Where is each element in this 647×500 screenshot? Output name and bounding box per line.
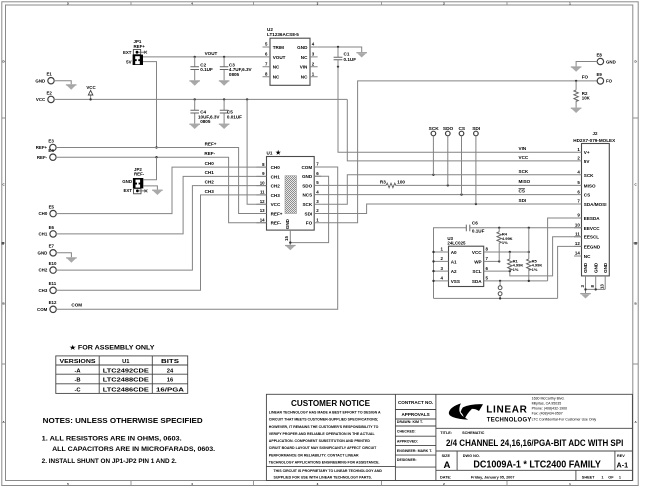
unpopulated jumper pads <box>498 281 502 299</box>
svg-text:TITLE:: TITLE: <box>440 431 452 435</box>
svg-text:E12: E12 <box>49 300 57 305</box>
ground at C2 <box>189 80 200 85</box>
svg-text:MISO: MISO <box>519 179 531 184</box>
svg-text:LTC2492CDE: LTC2492CDE <box>103 368 149 374</box>
svg-text:OF: OF <box>608 475 614 479</box>
wire J2 ground pins 3,8,13 <box>586 276 606 293</box>
svg-text:SDI: SDI <box>472 126 481 132</box>
svg-text:SCK: SCK <box>302 202 312 207</box>
svg-text:SDI: SDI <box>519 198 527 203</box>
svg-text:E9: E9 <box>597 72 603 77</box>
pad E8 GND <box>597 52 616 64</box>
svg-text:APPROVALS: APPROVALS <box>401 412 429 417</box>
ground at U1 <box>285 245 296 250</box>
capacitor C6 <box>466 221 484 234</box>
wire U1 GND pin6 route <box>290 176 328 242</box>
junction R5 bottom <box>528 280 530 282</box>
svg-text:SCHEMATIC: SCHEMATIC <box>462 431 485 435</box>
svg-text:★ FOR ASSEMBLY ONLY: ★ FOR ASSEMBLY ONLY <box>70 345 155 352</box>
junction R5/VCC <box>528 251 530 253</box>
svg-text:-C: -C <box>74 387 81 393</box>
svg-text:VSS: VSS <box>451 279 460 284</box>
svg-text:GND: GND <box>603 262 608 273</box>
svg-text:NC: NC <box>301 75 308 80</box>
svg-text:REF-: REF- <box>134 172 145 177</box>
svg-text:SIZE: SIZE <box>442 454 451 458</box>
pad E6 CH1 <box>39 225 57 237</box>
capacitor C4 <box>190 99 220 124</box>
svg-text:MISO: MISO <box>584 183 596 188</box>
svg-text:16: 16 <box>167 378 174 384</box>
svg-text:CH2: CH2 <box>205 180 215 185</box>
wire EEVCC net <box>434 228 582 299</box>
svg-text:ALL CAPACITORS ARE IN MICROFAR: ALL CAPACITORS ARE IN MICROFARADS, 0603. <box>52 446 215 453</box>
wire VCC to U1 pin 12 <box>247 99 266 204</box>
svg-text:CS: CS <box>458 126 465 132</box>
svg-text:E1: E1 <box>47 72 53 77</box>
svg-text:REF+: REF+ <box>134 44 146 49</box>
ground at C5 <box>219 124 230 129</box>
junction C2 <box>194 56 196 58</box>
svg-text:EESDA: EESDA <box>584 216 601 221</box>
pad E10 CH2 <box>39 261 57 273</box>
wire EESDA net <box>548 218 582 281</box>
wire E1 to ground <box>54 81 71 85</box>
svg-text:PERFORMANCE OR RELIABILITY. C: PERFORMANCE OR RELIABILITY. CONTACT LINE… <box>269 453 359 457</box>
svg-text:E2: E2 <box>47 90 53 95</box>
svg-text:NC: NC <box>273 75 280 80</box>
svg-text:16/PGA: 16/PGA <box>156 387 185 393</box>
testpoint SDO <box>443 126 454 186</box>
svg-text:LINEAR: LINEAR <box>486 405 528 416</box>
svg-text:C6: C6 <box>472 221 478 226</box>
svg-text:NC: NC <box>301 55 308 60</box>
svg-text:DATE:: DATE: <box>440 475 451 479</box>
svg-text:VCC: VCC <box>472 250 482 255</box>
svg-text:0.1UF: 0.1UF <box>200 67 213 72</box>
svg-text:12: 12 <box>260 199 265 204</box>
svg-text:SDO: SDO <box>302 183 312 188</box>
wire SDI net <box>321 204 574 214</box>
wire VCC to J2 pin 2 <box>347 99 574 160</box>
wire R5 column <box>528 228 530 259</box>
svg-text:REF+: REF+ <box>271 211 283 216</box>
svg-text:1: 1 <box>619 475 621 479</box>
svg-text:U1: U1 <box>122 359 130 365</box>
capacitor C5 <box>220 99 242 123</box>
svg-text:U1: U1 <box>267 150 273 155</box>
svg-text:REF+: REF+ <box>36 145 48 150</box>
wire CH3 net <box>56 195 267 290</box>
svg-text:SCL: SCL <box>472 269 481 274</box>
svg-text:GND: GND <box>35 78 45 83</box>
svg-text:VCC: VCC <box>271 202 281 207</box>
ground at JP2 <box>152 190 163 195</box>
svg-text:0.1UF: 0.1UF <box>472 229 485 234</box>
junction C4 <box>194 98 196 100</box>
ground at E7 <box>66 257 77 262</box>
wire FO net <box>321 81 597 223</box>
wire REF+ net to U1 pin 13 <box>56 148 267 214</box>
eeprom U3 24LC025 <box>434 236 489 287</box>
testpoint CS <box>458 126 465 195</box>
svg-text:CH0: CH0 <box>39 211 48 216</box>
svg-text:LT1236ACS8-5: LT1236ACS8-5 <box>267 32 299 37</box>
junction FO/R2 <box>575 80 577 82</box>
svg-text:GND: GND <box>302 174 313 179</box>
svg-text:E8: E8 <box>597 52 603 57</box>
junction jumper pads bottom <box>499 297 501 299</box>
pad E11 CH3 <box>39 281 57 293</box>
power symbol VCC <box>86 85 96 99</box>
wire VIN net: U2 VIN down and right to J2 pin 1 <box>338 67 574 152</box>
resistor R4 4.99K <box>497 228 513 262</box>
svg-text:A0: A0 <box>451 250 457 255</box>
svg-text:LINEAR TECHNOLOGY HAS MADE A B: LINEAR TECHNOLOGY HAS MADE A BEST EFFORT… <box>269 411 381 415</box>
wire SDO/MISO net with R3 <box>321 184 574 186</box>
svg-text:FO: FO <box>306 221 313 226</box>
svg-text:13: 13 <box>260 208 265 213</box>
junction R4 top <box>498 227 500 229</box>
pad E3 REF+ <box>36 138 56 150</box>
svg-text:GND: GND <box>122 179 132 184</box>
wire U3 WP pin 7 <box>484 260 500 262</box>
versions table <box>56 356 188 394</box>
svg-text:R3: R3 <box>380 179 386 184</box>
pad E12 COM <box>37 300 57 312</box>
connector J2 HD2X7-079-MOLEX <box>573 131 616 276</box>
capacitor C1 <box>334 47 357 67</box>
svg-text:GND: GND <box>285 218 290 229</box>
svg-text:TECHNOLOGY: TECHNOLOGY <box>487 418 532 424</box>
svg-text:VCC: VCC <box>36 97 46 102</box>
wire JP2 pin2 to ground <box>143 186 157 190</box>
wire E8 to ground <box>576 62 597 67</box>
approvals column <box>397 400 433 462</box>
svg-text:SDA: SDA <box>472 279 482 284</box>
svg-text:★: ★ <box>276 150 282 157</box>
svg-text:A2: A2 <box>451 269 457 274</box>
capacitor C2 <box>190 57 213 80</box>
svg-text:VERIFY PROPER AND RELIABLE OPE: VERIFY PROPER AND RELIABLE OPERATION IN … <box>269 432 376 436</box>
resistor R1 4.99K <box>508 252 524 272</box>
svg-text:1%: 1% <box>513 267 519 272</box>
svg-text:SCK: SCK <box>584 173 594 178</box>
wire ground bus under U3 <box>434 297 558 299</box>
svg-text:24: 24 <box>167 368 174 374</box>
jumper JP2 REF- <box>122 167 147 194</box>
junction C1 bottom / VIN <box>337 66 339 68</box>
svg-text:CH1: CH1 <box>39 232 48 237</box>
junction jumper pads top <box>499 280 501 282</box>
junction REF+ <box>155 146 157 148</box>
title row <box>440 431 623 449</box>
svg-text:APPROVED:: APPROVED: <box>397 439 418 443</box>
svg-text:VOUT: VOUT <box>205 51 218 56</box>
wire VOUT net: JP1 to U2 pin 6 <box>143 56 263 58</box>
svg-text:GND: GND <box>583 262 588 273</box>
svg-text:APPLICATION. COMPONENT SUBSTI: APPLICATION. COMPONENT SUBSTITUTION AND … <box>269 439 371 443</box>
svg-text:5V: 5V <box>126 59 131 64</box>
svg-text:NC: NC <box>273 65 280 70</box>
pad E2 VCC <box>36 90 54 102</box>
svg-text:12: 12 <box>575 241 580 246</box>
svg-text:DC1009A-1 * LTC2400 FAMILY: DC1009A-1 * LTC2400 FAMILY <box>473 460 601 471</box>
svg-text:0805: 0805 <box>229 72 240 77</box>
svg-text:TRIM: TRIM <box>273 45 284 50</box>
wire U1 GND pin 15 <box>289 230 291 245</box>
svg-text:11: 11 <box>575 231 580 236</box>
svg-text:EXT: EXT <box>123 188 132 193</box>
testpoint SDI <box>472 126 481 204</box>
svg-text:1. ALL RESISTORS ARE IN OHMS,: 1. ALL RESISTORS ARE IN OHMS, 0603. <box>42 435 182 442</box>
svg-text:CH3: CH3 <box>39 288 48 293</box>
svg-text:REF+: REF+ <box>205 142 217 147</box>
customer notice <box>269 398 383 480</box>
ground at E1 <box>66 84 77 89</box>
svg-text:NOTES: UNLESS OTHERWISE SPECI: NOTES: UNLESS OTHERWISE SPECIFIED <box>43 416 204 425</box>
junction R5 column top <box>528 227 530 229</box>
ground at C3 <box>219 80 230 85</box>
svg-text:C1: C1 <box>344 51 350 56</box>
pad E5 CH0 <box>39 205 57 217</box>
svg-text:100: 100 <box>397 179 405 184</box>
resistor R2 10K <box>574 81 591 108</box>
junction SDO testpoint <box>447 184 449 186</box>
size / dwg no / rev row <box>442 454 628 471</box>
svg-text:CH1: CH1 <box>205 170 215 175</box>
pad E7 GND <box>38 244 57 256</box>
notes <box>42 416 216 465</box>
svg-text:SDO: SDO <box>443 126 454 132</box>
svg-text:SCK: SCK <box>519 169 529 174</box>
ground at R2 <box>571 108 582 113</box>
svg-text:CUSTOMER NOTICE: CUSTOMER NOTICE <box>291 398 370 408</box>
svg-text:1%: 1% <box>532 267 538 272</box>
voltage reference U2 LT1236ACS8-5 <box>263 27 318 85</box>
svg-text:14: 14 <box>575 251 580 256</box>
svg-text:WP: WP <box>474 259 481 264</box>
svg-text:CS: CS <box>519 189 525 194</box>
svg-text:FO: FO <box>582 75 589 80</box>
date row <box>440 475 621 479</box>
svg-text:E4: E4 <box>48 148 54 153</box>
svg-text:VIN: VIN <box>519 146 527 151</box>
Linear Technology logo <box>449 403 532 423</box>
svg-text:VCC: VCC <box>519 155 529 160</box>
svg-text:14: 14 <box>260 218 265 223</box>
wire U3 SDA pin 5 <box>484 280 548 282</box>
svg-text:SUPPLIED FOR USE WITH LINEAR T: SUPPLIED FOR USE WITH LINEAR TECHNOLOGY … <box>274 476 372 480</box>
svg-text:ENGINEER: MARK T.: ENGINEER: MARK T. <box>397 449 432 453</box>
pad E4 REF- <box>37 148 56 160</box>
junction SCK testpoint <box>432 174 434 176</box>
svg-text:V+: V+ <box>584 150 590 155</box>
svg-text:1: 1 <box>601 475 603 479</box>
svg-text:E6: E6 <box>49 225 55 230</box>
wire U3 SCL pin 6 <box>484 270 510 272</box>
svg-text:Phone: (408)432-1900: Phone: (408)432-1900 <box>532 407 568 411</box>
svg-text:10: 10 <box>575 223 580 228</box>
junction C5 <box>223 98 225 100</box>
wire E7 to ground <box>56 253 71 257</box>
resistor R5 4.99K <box>527 259 543 281</box>
svg-text:CH1: CH1 <box>271 174 281 179</box>
svg-text:VIN: VIN <box>300 65 308 70</box>
svg-text:E3: E3 <box>48 138 54 143</box>
svg-text:CS: CS <box>584 193 590 198</box>
wire CS net <box>321 194 574 196</box>
svg-text:SCK: SCK <box>429 126 440 132</box>
svg-text:CIRCUIT THAT MEETS CUSTOMER-SU: CIRCUIT THAT MEETS CUSTOMER-SUPPLIED SPE… <box>269 418 379 422</box>
wire SCK net <box>321 175 574 204</box>
jumper JP1 REF+ <box>123 39 147 65</box>
svg-text:EXT: EXT <box>123 50 132 55</box>
svg-text:VOUT: VOUT <box>273 55 286 60</box>
svg-text:CH0: CH0 <box>271 165 281 170</box>
address block <box>532 397 597 422</box>
wire REF- net to U1 pin 14 <box>56 157 267 223</box>
svg-text:-B: -B <box>74 378 80 384</box>
svg-text:THIS CIRCUIT IS PROPRIETARY TO: THIS CIRCUIT IS PROPRIETARY TO LINEAR TE… <box>274 469 383 473</box>
svg-text:VCC: VCC <box>86 85 96 90</box>
svg-text:A: A <box>444 460 451 471</box>
svg-text:GND: GND <box>38 250 48 255</box>
wire U2 GND to ground <box>318 47 362 52</box>
svg-text:A-1: A-1 <box>617 460 629 469</box>
svg-text:0.01UF: 0.01UF <box>227 114 242 119</box>
svg-text:REF-: REF- <box>204 151 215 156</box>
svg-text:HOWEVER, IT REMAINS THE CUSTOM: HOWEVER, IT REMAINS THE CUSTOMER'S RESPO… <box>269 425 379 429</box>
svg-text:10: 10 <box>260 180 265 185</box>
svg-text:HD2X7-079-MOLEX: HD2X7-079-MOLEX <box>573 138 616 143</box>
wire CH2 net <box>56 186 267 271</box>
svg-text:1630 McCarthy Blvd.: 1630 McCarthy Blvd. <box>532 397 565 401</box>
ADC U1 LTC2492/2488/2486 <box>256 150 321 231</box>
svg-text:2/4 CHANNEL 24,16,16/PGA-BIT A: 2/4 CHANNEL 24,16,16/PGA-BIT ADC WITH SP… <box>446 438 624 449</box>
svg-text:2. INSTALL SHUNT ON JP1-JP2 P: 2. INSTALL SHUNT ON JP1-JP2 PIN 1 AND 2. <box>42 458 177 465</box>
junction U1 VCC branch <box>246 98 248 100</box>
svg-text:EESCL: EESCL <box>584 235 600 240</box>
junction R1 top <box>509 251 511 253</box>
svg-text:15: 15 <box>284 236 289 241</box>
wire EESCL net <box>510 237 582 276</box>
svg-text:EEVCC: EEVCC <box>584 226 601 231</box>
svg-text:COM: COM <box>71 302 82 307</box>
svg-text:COM: COM <box>37 307 48 312</box>
svg-text:E10: E10 <box>49 261 57 266</box>
svg-text:GND: GND <box>297 45 308 50</box>
svg-text:DWG NO.: DWG NO. <box>463 454 480 458</box>
junction R4 bottom <box>498 260 500 262</box>
svg-text:TECHNOLOGY APPLICATIONS ENGINE: TECHNOLOGY APPLICATIONS ENGINEERING FOR … <box>269 460 380 464</box>
svg-text:CONTRACT NO.: CONTRACT NO. <box>398 400 433 405</box>
svg-text:Friday, January 05, 2007: Friday, January 05, 2007 <box>471 475 515 479</box>
svg-text:LTC2486CDE: LTC2486CDE <box>103 387 149 393</box>
junction pin15/pin6 gnd <box>289 241 291 243</box>
svg-text:CH2: CH2 <box>39 268 48 273</box>
junction C3 <box>223 56 225 58</box>
junction U3 left pins on ground column <box>432 251 434 253</box>
svg-text:GND: GND <box>606 59 616 64</box>
svg-text:NCS: NCS <box>302 193 312 198</box>
svg-text:REV: REV <box>617 454 625 458</box>
svg-text:SDI: SDI <box>305 211 313 216</box>
svg-text:13: 13 <box>600 284 605 289</box>
svg-text:10K: 10K <box>582 96 591 101</box>
svg-text:CIRUIT BOARD LAYOUT MAY SIGNIF: CIRUIT BOARD LAYOUT MAY SIGNIFICANTLY AF… <box>269 446 377 450</box>
svg-text:CH2: CH2 <box>271 184 281 189</box>
svg-text:24LC025: 24LC025 <box>447 240 466 245</box>
svg-text:5V: 5V <box>584 159 591 164</box>
svg-text:BITS: BITS <box>161 359 179 365</box>
svg-text:SDA/MOSI: SDA/MOSI <box>584 202 607 207</box>
svg-text:-A: -A <box>74 368 81 374</box>
wire CH0 net <box>56 167 267 214</box>
junction C1 top <box>337 46 339 48</box>
svg-text:A1: A1 <box>451 259 457 264</box>
wire CH1 net <box>56 176 267 234</box>
junction REF- at JP2 branch <box>155 156 157 158</box>
svg-text:COM: COM <box>301 165 312 170</box>
wire VCC net main horizontal <box>54 98 347 100</box>
svg-text:CH0: CH0 <box>205 161 215 166</box>
svg-text:DRAWN: KIM T.: DRAWN: KIM T. <box>397 420 423 424</box>
ground at U2 GND pin <box>356 52 367 57</box>
wire COM net <box>56 167 338 309</box>
svg-text:CH3: CH3 <box>205 189 215 194</box>
svg-text:NC: NC <box>584 254 591 259</box>
capacitor C3 <box>220 57 253 80</box>
wire JP1 pin2 to REF+ net <box>143 62 157 148</box>
junction VCC symbol <box>89 98 91 100</box>
resistor R3 100 <box>380 179 406 187</box>
svg-text:FO: FO <box>606 79 613 84</box>
svg-text:LTC Confidential-For Customer: LTC Confidential-For Customer Use Only <box>532 418 597 422</box>
ground at E8 <box>571 66 582 71</box>
svg-text:0.1UF: 0.1UF <box>344 57 357 62</box>
svg-text:GND: GND <box>593 262 598 273</box>
svg-text:REF-: REF- <box>37 155 48 160</box>
svg-text:REF-: REF- <box>271 221 282 226</box>
svg-text:CH3: CH3 <box>271 193 281 198</box>
svg-text:E11: E11 <box>49 281 57 286</box>
svg-text:0805: 0805 <box>200 119 211 124</box>
testpoint SCK <box>429 126 440 175</box>
svg-text:SHEET: SHEET <box>582 475 595 479</box>
pad E1 GND <box>35 72 54 84</box>
junction CS testpoint <box>460 193 462 195</box>
svg-text:Milpitas, CA 95035: Milpitas, CA 95035 <box>532 401 562 405</box>
svg-text:Fax: (408)434-0507: Fax: (408)434-0507 <box>532 412 563 416</box>
svg-text:LTC2488CDE: LTC2488CDE <box>103 378 149 384</box>
ground at J2 <box>580 293 591 299</box>
wire JP2 pin1 to REF- net <box>143 157 156 180</box>
ground at C4 <box>189 124 200 129</box>
svg-text:CHECKED:: CHECKED: <box>397 430 416 434</box>
svg-text:J2: J2 <box>593 131 598 136</box>
pad E9 FO <box>597 72 613 84</box>
wire EEGND net <box>558 246 582 298</box>
svg-text:EEGND: EEGND <box>584 244 601 249</box>
junction J2 gnd <box>595 288 597 290</box>
junction SDI testpoint <box>475 203 477 205</box>
svg-text:1%: 1% <box>502 240 508 245</box>
junction R1 bottom <box>509 270 511 272</box>
svg-text:VERSIONS: VERSIONS <box>60 359 96 365</box>
svg-text:E7: E7 <box>49 244 55 249</box>
svg-text:11: 11 <box>260 190 265 195</box>
